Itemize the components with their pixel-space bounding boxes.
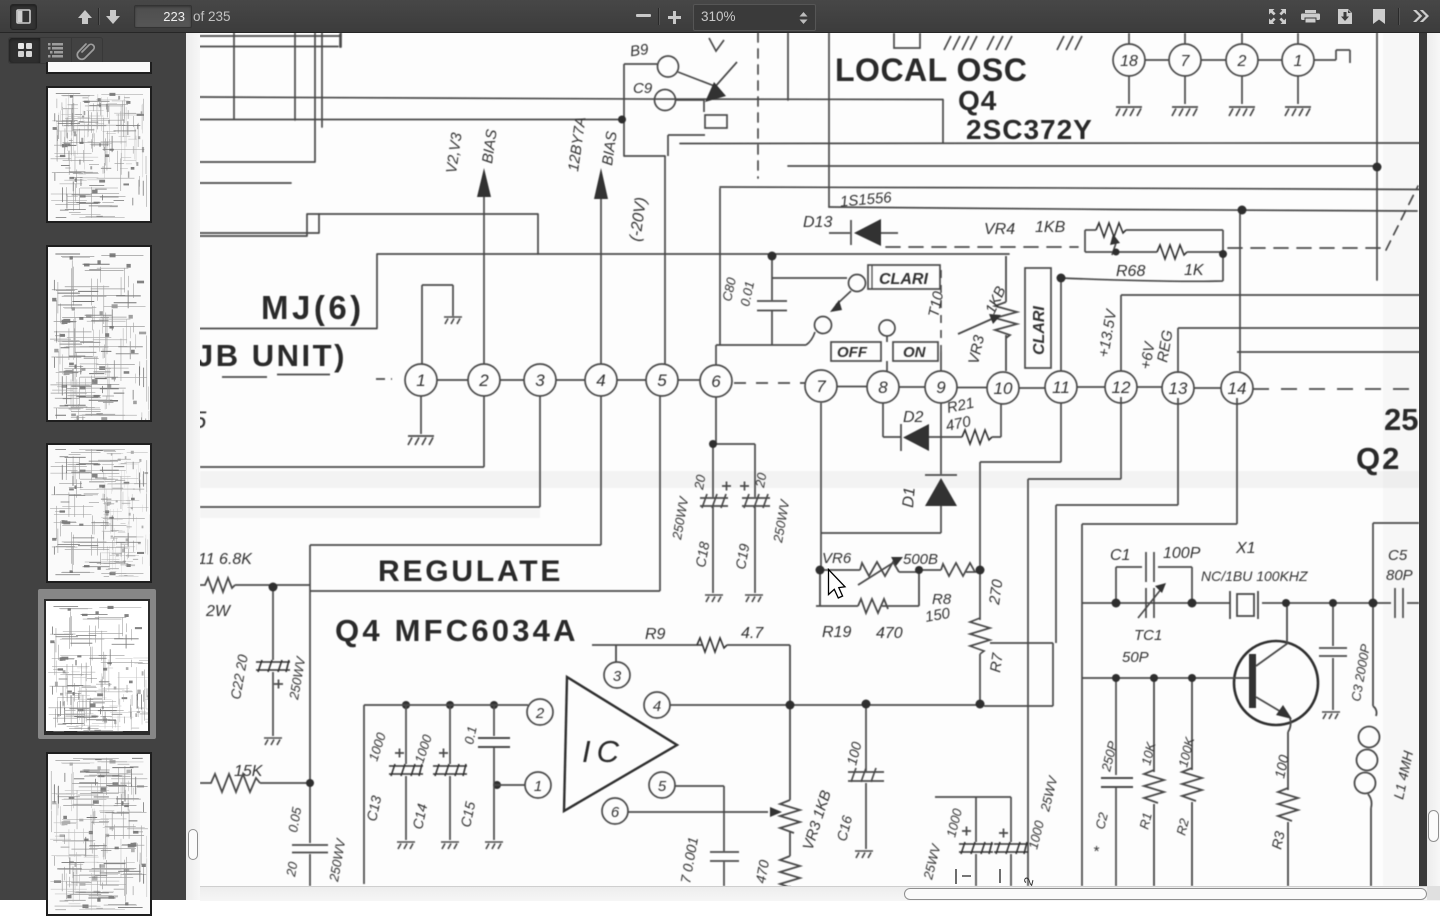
ground under pin 7 bbox=[1172, 107, 1198, 116]
svg-text:250WV: 250WV bbox=[669, 495, 692, 542]
step wire pin5 bbox=[310, 396, 660, 591]
output wire pin4 bbox=[670, 704, 980, 706]
bracket stub top bbox=[894, 33, 920, 48]
thumbnail page 223 selected bbox=[38, 589, 156, 739]
ground under pin 2 bbox=[1229, 107, 1255, 116]
svg-text:250WV: 250WV bbox=[326, 837, 349, 884]
step wire pin4 bbox=[310, 396, 601, 545]
LOCAL OSC label bbox=[835, 52, 1093, 145]
resistor R7 bbox=[970, 403, 1061, 704]
svg-text:11: 11 bbox=[1052, 378, 1070, 397]
svg-text:C3 2000P: C3 2000P bbox=[1348, 643, 1373, 703]
svg-text:1K: 1K bbox=[1184, 262, 1205, 279]
svg-text:MJ(6): MJ(6) bbox=[261, 289, 365, 326]
pin 1 bbox=[1282, 44, 1314, 76]
potentiometer VR3 bbox=[958, 256, 1017, 371]
svg-text:100K: 100K bbox=[1175, 734, 1197, 768]
D13 / VR4 region bbox=[829, 219, 1223, 371]
zoom out bbox=[636, 14, 651, 17]
sidebar scrollbar bbox=[186, 33, 200, 900]
svg-text:D1: D1 bbox=[900, 486, 919, 508]
svg-text:5: 5 bbox=[658, 778, 667, 795]
box ON bbox=[893, 342, 938, 361]
bus wire D bbox=[200, 254, 1009, 329]
svg-text:D13: D13 bbox=[803, 214, 832, 231]
connector B9 bbox=[658, 56, 679, 77]
svg-text:VR3: VR3 bbox=[965, 333, 988, 366]
pin1 bottom wire bbox=[420, 396, 422, 434]
svg-text:2SC372Y: 2SC372Y bbox=[966, 114, 1093, 145]
polarity tick marks bbox=[956, 869, 1000, 884]
svg-text:C80: C80 bbox=[719, 275, 739, 302]
wire bbox=[200, 214, 319, 233]
svg-text:C13: C13 bbox=[363, 794, 384, 823]
svg-text:270: 270 bbox=[986, 578, 1007, 607]
svg-text:10K: 10K bbox=[1138, 739, 1158, 766]
step wire pin13 bbox=[1056, 398, 1178, 643]
svg-text:4.7: 4.7 bbox=[741, 625, 764, 642]
svg-text:C16: C16 bbox=[833, 814, 855, 843]
capacitor 1000 25WV a bbox=[935, 797, 1011, 886]
svg-text:B9: B9 bbox=[629, 41, 650, 60]
diode D1 bbox=[821, 403, 957, 570]
svg-text:470: 470 bbox=[752, 859, 772, 885]
thumbnail page 220 bottom sliver bbox=[46, 62, 152, 74]
resistor R9 bbox=[592, 638, 790, 705]
pin1 top ground hook bbox=[422, 285, 453, 364]
box OFF bbox=[831, 342, 881, 361]
diode D2 loop bbox=[883, 403, 1001, 451]
connector pin row bbox=[376, 364, 1420, 404]
zoom in bbox=[668, 11, 681, 24]
dashed riser bbox=[757, 33, 759, 178]
capacitor 0.05 bbox=[292, 845, 328, 853]
floating ground hatch bbox=[944, 36, 1082, 50]
wiper wire pin6 bbox=[628, 807, 782, 817]
wire stub bbox=[233, 33, 235, 119]
riser to local osc bbox=[788, 33, 943, 143]
dashed wire bbox=[940, 270, 942, 352]
svg-text:2: 2 bbox=[1237, 53, 1247, 70]
photocopy streak band bbox=[200, 471, 1419, 488]
svg-text:14: 14 bbox=[1228, 379, 1247, 398]
svg-text:R3: R3 bbox=[1268, 830, 1287, 851]
svg-text:9: 9 bbox=[936, 378, 946, 397]
svg-text:ON: ON bbox=[903, 344, 927, 361]
capacitor C14 bbox=[433, 705, 467, 840]
capacitor C1 100P bbox=[1116, 552, 1192, 603]
svg-text:1KB: 1KB bbox=[1035, 219, 1066, 236]
svg-text:12: 12 bbox=[1112, 378, 1131, 397]
svg-text:10: 10 bbox=[994, 379, 1013, 398]
toolbar bbox=[0, 0, 1440, 33]
svg-text:4: 4 bbox=[653, 698, 661, 715]
svg-text:5: 5 bbox=[200, 407, 207, 434]
svg-text:1: 1 bbox=[534, 778, 542, 795]
svg-text:25WV: 25WV bbox=[920, 841, 944, 881]
transistor arrow Q4 bbox=[709, 38, 737, 88]
svg-text:C19: C19 bbox=[732, 542, 752, 570]
thumbnail page 224 bbox=[46, 752, 152, 916]
svg-text:D2: D2 bbox=[903, 409, 924, 426]
svg-text:C14: C14 bbox=[409, 802, 430, 831]
svg-text:R9: R9 bbox=[645, 626, 666, 643]
crystal X1 bbox=[1230, 591, 1373, 619]
svg-text:6: 6 bbox=[711, 372, 721, 391]
svg-text:REG: REG bbox=[1154, 328, 1176, 363]
svg-text:C22 20: C22 20 bbox=[227, 653, 251, 700]
connector C9 bbox=[655, 90, 676, 111]
svg-text:JB UNIT): JB UNIT) bbox=[200, 338, 347, 373]
wire bbox=[1085, 230, 1157, 252]
arrow 12BY7A BIAS bbox=[594, 168, 608, 364]
trimmer chain below bbox=[780, 705, 800, 889]
svg-text:13: 13 bbox=[1169, 379, 1188, 398]
svg-text:C15: C15 bbox=[457, 800, 478, 829]
bookmark icon bbox=[1373, 9, 1385, 24]
capacitor C15 bbox=[478, 705, 525, 840]
svg-text:Q2: Q2 bbox=[1356, 441, 1401, 476]
frame line right bbox=[1376, 33, 1378, 280]
pin 2 bbox=[1226, 44, 1258, 76]
riser bbox=[828, 33, 830, 207]
emitter resistor box Q4 bbox=[705, 115, 727, 128]
trimmer TC1 bbox=[1082, 583, 1230, 618]
top-left wire box bbox=[200, 34, 341, 47]
wire bbox=[200, 182, 291, 184]
svg-text:0.05: 0.05 bbox=[285, 805, 304, 833]
resistor R2 100K bbox=[1182, 678, 1202, 886]
ground under pin 18 bbox=[1116, 107, 1142, 116]
wiper arrow VR4 bbox=[1112, 240, 1117, 255]
wire jog bbox=[665, 135, 705, 364]
svg-text:25WV: 25WV bbox=[1037, 773, 1061, 813]
pin 4 bbox=[644, 692, 670, 718]
capacitor C16 bbox=[848, 704, 884, 849]
svg-text:150: 150 bbox=[924, 605, 952, 626]
viewer dark edge bbox=[1419, 33, 1427, 886]
svg-text:VR4: VR4 bbox=[984, 221, 1015, 238]
potentiometer VR4 bbox=[1085, 229, 1096, 231]
svg-text:7: 7 bbox=[1181, 53, 1191, 70]
svg-text:2: 2 bbox=[478, 371, 489, 390]
dashed link bbox=[734, 382, 805, 384]
svg-text:1000: 1000 bbox=[366, 730, 389, 763]
download icon bbox=[1337, 9, 1353, 24]
svg-text:2W: 2W bbox=[205, 603, 232, 620]
svg-text:*: * bbox=[1093, 843, 1100, 860]
resistor R68 bbox=[1157, 245, 1187, 259]
capacitor 0.001 bbox=[675, 786, 739, 886]
svg-text:18: 18 bbox=[1120, 53, 1138, 70]
step wire pin2 bbox=[200, 396, 484, 467]
sidebar button row bbox=[8, 37, 103, 64]
svg-text:0.1: 0.1 bbox=[461, 725, 479, 746]
dashed branch bbox=[886, 247, 1386, 248]
svg-text:3: 3 bbox=[535, 371, 545, 390]
pin 7 bbox=[1169, 44, 1201, 76]
wire bbox=[676, 100, 705, 112]
svg-text:0.01: 0.01 bbox=[737, 280, 757, 308]
svg-text:C1: C1 bbox=[1110, 547, 1130, 564]
pin 1 bbox=[525, 772, 551, 798]
svg-text:7 0.001: 7 0.001 bbox=[677, 836, 701, 885]
wire bbox=[321, 33, 323, 127]
svg-text:R21: R21 bbox=[945, 395, 975, 417]
diode D13 bbox=[850, 220, 852, 245]
arrow V2,V3 BIAS bbox=[477, 168, 491, 364]
svg-text:4: 4 bbox=[596, 371, 605, 390]
bus wire F bbox=[788, 165, 1377, 167]
top-right connector circles bbox=[1113, 33, 1350, 104]
svg-text:8: 8 bbox=[878, 378, 888, 397]
links bbox=[1145, 50, 1350, 63]
right gutter scrollbar bbox=[1427, 33, 1440, 886]
print icon bbox=[1301, 10, 1320, 23]
op-amp IC triangle bbox=[564, 677, 677, 811]
supply wires bbox=[1121, 210, 1428, 373]
wire bbox=[294, 33, 296, 120]
ground bbox=[705, 595, 723, 602]
dash bbox=[376, 378, 392, 380]
wire loop near R7 bbox=[984, 643, 1053, 706]
bus wire E bbox=[680, 142, 1428, 145]
page number input bbox=[134, 5, 192, 28]
svg-text:R19: R19 bbox=[822, 624, 851, 641]
svg-text:50P: 50P bbox=[1122, 649, 1149, 666]
svg-text:R68: R68 bbox=[1116, 263, 1145, 280]
svg-text:VR6: VR6 bbox=[822, 550, 852, 567]
box edge bbox=[309, 545, 311, 886]
step wire pin3 bbox=[200, 396, 540, 507]
svg-text:BIAS: BIAS bbox=[479, 128, 501, 164]
svg-text:6: 6 bbox=[611, 804, 620, 821]
wire bbox=[200, 33, 315, 162]
svg-text:250P: 250P bbox=[1098, 739, 1120, 773]
svg-text:1000: 1000 bbox=[943, 806, 965, 838]
pin 2 bbox=[527, 699, 553, 725]
svg-text:100: 100 bbox=[843, 740, 864, 767]
svg-text:5: 5 bbox=[657, 371, 667, 390]
pin 18 bbox=[1113, 44, 1145, 76]
svg-text:25: 25 bbox=[1384, 402, 1418, 437]
bus wire H bbox=[829, 207, 1417, 211]
pin 6 bbox=[602, 798, 628, 824]
svg-text:7: 7 bbox=[816, 377, 826, 396]
step wire pin14 bbox=[1082, 398, 1237, 886]
bus wire A bbox=[200, 97, 943, 100]
switch contact bbox=[879, 320, 941, 371]
capacitor C22 bbox=[256, 587, 290, 736]
dashed link bbox=[1253, 388, 1420, 390]
sidebar bbox=[0, 33, 186, 900]
sidebar toggle button bbox=[10, 4, 37, 30]
zoom dropdown bbox=[693, 4, 816, 31]
svg-text:C2: C2 bbox=[1092, 810, 1111, 831]
svg-text:(-20V): (-20V) bbox=[627, 196, 650, 242]
wire bbox=[829, 232, 850, 234]
overflow chevrons bbox=[1412, 10, 1429, 22]
inductor L1 bbox=[1355, 603, 1380, 886]
svg-text:X1: X1 bbox=[1235, 540, 1256, 557]
svg-text:Q4 MFC6034A: Q4 MFC6034A bbox=[335, 613, 579, 648]
capacitor 1000 25WV b bbox=[994, 797, 1028, 886]
svg-text:VR3 1KB: VR3 1KB bbox=[800, 788, 835, 852]
ground bbox=[745, 595, 763, 602]
thumbnail page 221 bbox=[46, 86, 152, 223]
thumbnail page 222b bbox=[46, 443, 152, 583]
thumbnail page 222 bbox=[46, 245, 152, 422]
box CLARI bbox=[868, 265, 940, 289]
capacitor C3 2000P bbox=[1319, 603, 1347, 710]
svg-text:BIAS: BIAS bbox=[599, 130, 621, 166]
svg-text:250WV: 250WV bbox=[770, 498, 793, 545]
svg-text:Q4: Q4 bbox=[958, 85, 997, 116]
wire to Q4 base bbox=[678, 72, 717, 87]
capacitor C13 bbox=[364, 705, 528, 884]
svg-text:15K: 15K bbox=[234, 763, 264, 780]
svg-text:TC1: TC1 bbox=[1134, 627, 1162, 644]
svg-text:LOCAL OSC: LOCAL OSC bbox=[835, 52, 1027, 88]
svg-text:11 6.8K: 11 6.8K bbox=[200, 551, 253, 568]
svg-text:REGULATE: REGULATE bbox=[378, 555, 563, 588]
bus wire B with corner to B9 bbox=[200, 120, 665, 157]
svg-text:80P: 80P bbox=[1386, 567, 1413, 584]
presentation mode icon bbox=[1269, 9, 1286, 24]
svg-text:C18: C18 bbox=[692, 540, 712, 568]
capacitor C5 bbox=[1373, 523, 1419, 618]
svg-text:NC/1BU 100KHZ: NC/1BU 100KHZ bbox=[1201, 568, 1308, 584]
svg-text:IC: IC bbox=[582, 734, 625, 769]
svg-text:T10: T10 bbox=[925, 289, 947, 318]
svg-text:CLARI: CLARI bbox=[1031, 306, 1048, 355]
wire stub bbox=[340, 33, 342, 47]
bus wire G bbox=[720, 187, 1428, 190]
step wire pin12 bbox=[1028, 397, 1121, 886]
svg-text:470: 470 bbox=[876, 625, 903, 642]
pin 3 bbox=[604, 662, 630, 688]
box CLARI vertical bbox=[1025, 268, 1051, 368]
wire bbox=[624, 64, 657, 119]
links bbox=[437, 380, 1221, 388]
ground under pin 1 bbox=[1285, 107, 1311, 116]
svg-text:1000: 1000 bbox=[412, 732, 435, 765]
svg-text:+13.5V: +13.5V bbox=[1095, 307, 1120, 359]
svg-text:1: 1 bbox=[416, 371, 425, 390]
svg-text:R1: R1 bbox=[1136, 811, 1155, 831]
bottom scrollbar bbox=[200, 886, 1440, 901]
thumbnail sketch symbol bbox=[0, 32, 1, 34]
svg-text:12BY7A: 12BY7A bbox=[565, 116, 589, 173]
svg-text:CLARI: CLARI bbox=[879, 271, 928, 288]
resistor R1 10K bbox=[1144, 678, 1164, 886]
page down arrow bbox=[104, 8, 122, 26]
svg-text:C5: C5 bbox=[1388, 547, 1408, 564]
svg-text:2: 2 bbox=[535, 705, 545, 722]
transistor Q2 bbox=[1234, 641, 1318, 725]
underline marks bbox=[222, 375, 330, 378]
capacitor C18 C19 bbox=[700, 397, 770, 593]
svg-text:V2,V3: V2,V3 bbox=[443, 131, 466, 174]
page up arrow bbox=[76, 8, 94, 26]
pin 5 bbox=[649, 772, 675, 798]
wire bbox=[1061, 252, 1223, 371]
ground bbox=[444, 317, 462, 324]
capacitor C80 bbox=[757, 257, 787, 345]
clarifier switch bbox=[716, 188, 866, 365]
svg-text:100P: 100P bbox=[1163, 545, 1201, 562]
svg-text:R2: R2 bbox=[1173, 816, 1192, 837]
svg-text:1: 1 bbox=[1294, 53, 1303, 70]
ground bbox=[408, 436, 434, 445]
mouse cursor bbox=[829, 570, 846, 599]
dashed diagonal bbox=[1386, 186, 1418, 250]
capacitor C2 250P bbox=[1101, 678, 1133, 886]
potentiometer VR6 500B bbox=[816, 557, 980, 613]
svg-text:20: 20 bbox=[283, 860, 301, 879]
svg-text:C9: C9 bbox=[633, 80, 653, 97]
svg-text:R7: R7 bbox=[987, 652, 1007, 674]
svg-text:3: 3 bbox=[613, 668, 622, 685]
svg-text:500B: 500B bbox=[903, 551, 938, 568]
svg-text:OFF: OFF bbox=[837, 344, 868, 361]
bus wire C bbox=[200, 214, 538, 254]
